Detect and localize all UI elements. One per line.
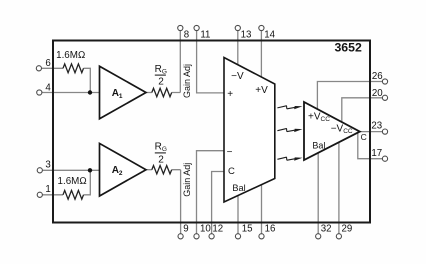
op-amp A2 xyxy=(100,143,147,196)
svg-text:11: 11 xyxy=(200,30,210,41)
terminal pin 13 xyxy=(235,25,240,30)
svg-text:4: 4 xyxy=(45,83,51,94)
svg-text:1.6MΩ: 1.6MΩ xyxy=(58,176,87,187)
wire pin 20 -Vcc xyxy=(342,98,383,122)
terminal pin 6 xyxy=(36,66,41,71)
value label RG/2 (top) xyxy=(155,64,167,88)
terminal pin 14 xyxy=(259,25,264,30)
wire pin3 input (A2 + input net) xyxy=(43,169,101,171)
isolation arrow 2 xyxy=(277,129,302,133)
svg-text:29: 29 xyxy=(342,223,353,234)
svg-text:3: 3 xyxy=(45,160,50,171)
wire pin 13 to -V xyxy=(237,31,239,65)
wire pin 26 +Vcc xyxy=(317,82,382,110)
wire pin 15 modulator Bal xyxy=(237,195,239,233)
isolation arrow 1 xyxy=(277,106,302,110)
terminal pin 20 xyxy=(382,95,387,100)
wire pin 32 Bal xyxy=(317,153,319,234)
svg-text:23: 23 xyxy=(371,120,382,131)
svg-text:Bal: Bal xyxy=(312,141,325,151)
terminal pin 15 xyxy=(235,234,240,239)
terminal pin 8 xyxy=(178,25,183,30)
svg-text:2: 2 xyxy=(158,154,164,165)
svg-text:−V: −V xyxy=(231,71,244,82)
terminal pin 3 xyxy=(37,168,42,173)
wire RG/2 to pin 8 gain adj xyxy=(172,31,181,93)
resistor R1 1.6M ohm (top) xyxy=(63,64,84,73)
svg-text:1: 1 xyxy=(45,184,50,195)
resistor R2 1.6M ohm (bottom) xyxy=(63,190,84,199)
terminal pin 23 xyxy=(382,129,387,134)
wire pin 14 to +V xyxy=(260,31,262,77)
wire RG/2 to pin 9 gain adj xyxy=(172,170,181,234)
svg-text:−: − xyxy=(227,147,233,158)
wire pin 10 to modulator - input xyxy=(197,151,225,234)
junction node A1 input xyxy=(88,90,92,94)
wire pin 12 to modulator C input xyxy=(212,172,224,234)
wire A1 output to RG/2 xyxy=(146,92,152,94)
wire pin6 input xyxy=(42,68,91,92)
wire pin 23 output xyxy=(359,131,382,133)
wire pin4 input (A1 + input net) xyxy=(42,92,100,94)
wire pin 11 to modulator + input xyxy=(197,31,224,93)
terminal pin 17 xyxy=(382,156,387,161)
svg-text:17: 17 xyxy=(371,148,382,159)
svg-text:C: C xyxy=(228,166,235,177)
svg-text:Gain Adj: Gain Adj xyxy=(182,64,192,98)
svg-text:8: 8 xyxy=(184,30,189,41)
svg-text:12: 12 xyxy=(212,223,223,234)
svg-text:10: 10 xyxy=(200,223,211,234)
resistor RG/2 (bottom) xyxy=(152,166,172,174)
terminal pin 26 xyxy=(382,79,387,84)
svg-text:Bal: Bal xyxy=(232,183,245,193)
terminal pin 12 xyxy=(209,234,214,239)
svg-text:+V: +V xyxy=(255,85,268,96)
terminal pin 10 xyxy=(194,234,199,239)
svg-text:2: 2 xyxy=(158,76,164,87)
svg-text:1.6MΩ: 1.6MΩ xyxy=(56,50,85,61)
terminal pin 16 xyxy=(259,234,264,239)
value label RG/2 (bottom) xyxy=(155,141,167,165)
svg-text:13: 13 xyxy=(241,30,252,41)
svg-text:6: 6 xyxy=(45,58,50,69)
op-amp U2 (output amplifier) xyxy=(304,102,360,160)
terminal pin 4 xyxy=(37,90,42,95)
svg-text:+: + xyxy=(227,89,233,100)
resistor RG/2 (top) xyxy=(152,88,172,96)
IC outline box xyxy=(53,41,370,223)
svg-text:20: 20 xyxy=(372,88,383,99)
svg-text:15: 15 xyxy=(242,223,253,234)
svg-text:26: 26 xyxy=(372,71,383,82)
wire pin 16 modulator Bal xyxy=(261,185,263,234)
svg-text:C: C xyxy=(361,132,367,142)
terminal pin 9 xyxy=(178,234,183,239)
terminal pin 32 xyxy=(316,234,321,239)
wire pin 29 Bal xyxy=(338,142,340,234)
terminal pin 1 xyxy=(37,192,42,197)
terminal pin 29 xyxy=(336,234,341,239)
wire pin 17 output C xyxy=(358,132,383,159)
svg-text:3652: 3652 xyxy=(334,41,362,55)
svg-text:32: 32 xyxy=(321,223,332,234)
junction node A2 input xyxy=(88,168,92,172)
svg-text:Gain Adj: Gain Adj xyxy=(182,163,192,197)
terminal pin 11 xyxy=(194,25,199,30)
svg-text:16: 16 xyxy=(265,223,276,234)
svg-text:14: 14 xyxy=(264,30,275,41)
modulator block U1 (isolation stage) xyxy=(224,58,275,203)
isolation arrow 3 xyxy=(277,157,302,161)
op-amp A1 xyxy=(100,66,147,119)
svg-text:9: 9 xyxy=(183,223,188,234)
wire pin1 input xyxy=(43,170,91,195)
wire A2 output to RG/2 xyxy=(146,169,152,171)
